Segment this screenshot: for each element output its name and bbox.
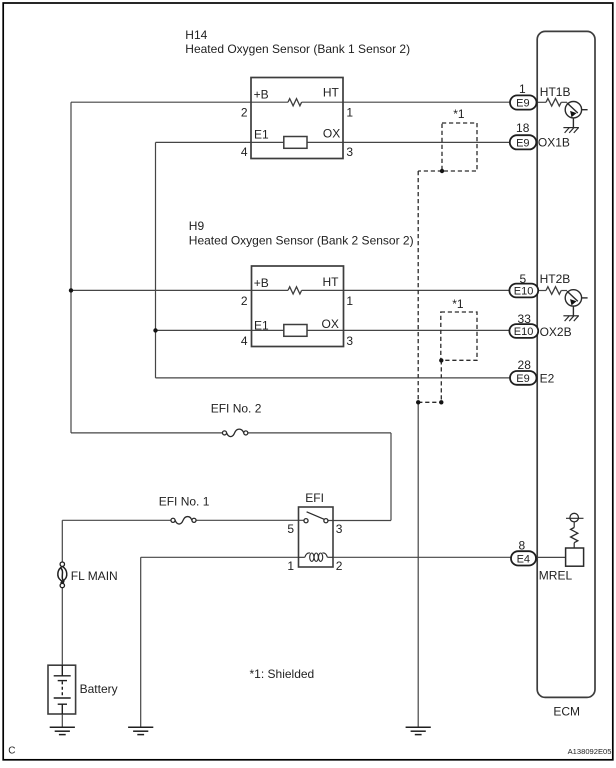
svg-text:E2: E2 (540, 371, 555, 385)
svg-text:OX: OX (323, 126, 340, 140)
svg-text:1: 1 (346, 294, 353, 308)
svg-text:E10: E10 (514, 326, 534, 338)
svg-text:HT2B: HT2B (540, 272, 571, 286)
svg-text:28: 28 (518, 358, 532, 372)
svg-text:3: 3 (346, 334, 353, 348)
svg-text:2: 2 (241, 294, 248, 308)
svg-text:4: 4 (241, 145, 248, 159)
svg-text:E1: E1 (254, 318, 269, 332)
svg-text:5: 5 (520, 272, 527, 286)
svg-text:OX1B: OX1B (538, 136, 570, 150)
svg-text:5: 5 (287, 522, 294, 536)
svg-text:MREL: MREL (539, 568, 573, 582)
svg-text:Heated Oxygen Sensor (Bank 2 S: Heated Oxygen Sensor (Bank 2 Sensor 2) (189, 233, 414, 247)
svg-text:ECM: ECM (553, 705, 580, 719)
svg-text:H9: H9 (189, 219, 205, 233)
svg-text:EFI: EFI (305, 491, 324, 505)
svg-text:OX2B: OX2B (540, 325, 572, 339)
svg-text:2: 2 (336, 559, 343, 573)
svg-text:33: 33 (518, 312, 532, 326)
svg-text:1: 1 (346, 106, 353, 120)
svg-text:2: 2 (241, 106, 248, 120)
svg-text:E1: E1 (254, 127, 269, 141)
svg-text:8: 8 (518, 538, 525, 552)
svg-text:+B: +B (254, 276, 269, 290)
svg-text:+B: +B (254, 87, 269, 101)
svg-text:A138092E05: A138092E05 (568, 747, 612, 756)
svg-text:*1: *1 (452, 297, 464, 311)
svg-text:C: C (8, 746, 15, 757)
svg-text:HT: HT (323, 85, 340, 99)
svg-text:3: 3 (346, 145, 353, 159)
svg-text:18: 18 (516, 121, 530, 135)
svg-text:4: 4 (241, 334, 248, 348)
svg-text:Battery: Battery (80, 682, 118, 696)
svg-text:3: 3 (336, 522, 343, 536)
svg-text:*1: *1 (453, 107, 465, 121)
svg-text:H14: H14 (185, 28, 207, 42)
svg-text:EFI No. 1: EFI No. 1 (159, 494, 210, 508)
svg-text:E9: E9 (516, 98, 529, 110)
svg-text:HT1B: HT1B (540, 85, 571, 99)
svg-text:E4: E4 (517, 554, 530, 566)
svg-text:E9: E9 (516, 373, 529, 385)
svg-text:E9: E9 (516, 137, 529, 149)
svg-text:FL MAIN: FL MAIN (71, 569, 118, 583)
svg-text:*1: Shielded: *1: Shielded (250, 667, 315, 681)
svg-text:HT: HT (323, 275, 340, 289)
svg-text:EFI No. 2: EFI No. 2 (211, 402, 262, 416)
svg-text:E10: E10 (514, 286, 534, 298)
svg-text:OX: OX (322, 317, 339, 331)
svg-text:1: 1 (287, 559, 294, 573)
svg-text:1: 1 (519, 82, 526, 96)
svg-text:Heated Oxygen Sensor (Bank 1 S: Heated Oxygen Sensor (Bank 1 Sensor 2) (185, 42, 410, 56)
